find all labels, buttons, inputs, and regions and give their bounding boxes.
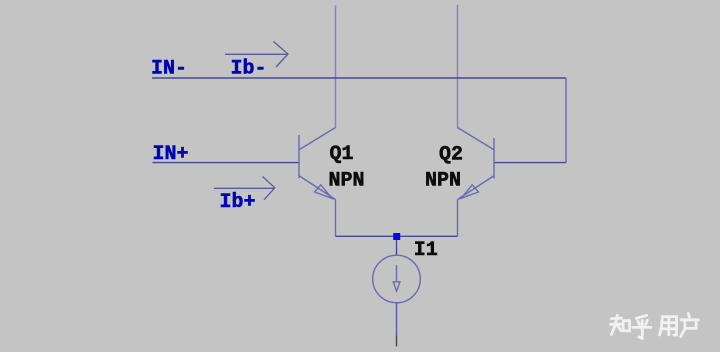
wire junction to current source [396,240,398,256]
glyph hu [636,315,646,318]
wire below current source [396,303,398,336]
current arrow Ib- [225,42,288,68]
wire IN+ horizontal [153,162,300,164]
watermark zhihu user (drawn glyphs) [611,313,699,338]
svg-text:Ib-: Ib- [231,58,267,81]
current arrow Ib+ [214,177,275,200]
wire right vertical from IN- down [565,78,567,163]
svg-text:NPN: NPN [425,169,461,192]
wire top vertical to Q1 collector [335,6,337,128]
svg-text:Q1: Q1 [330,143,354,166]
wire top vertical to Q2 collector [457,5,459,128]
svg-text:IN+: IN+ [153,143,189,166]
transistor Q1 [299,128,336,237]
wire Q2 base horizontal [494,162,567,164]
current source I1 [373,255,421,303]
wire IN- horizontal [152,77,566,79]
svg-text:Ib+: Ib+ [220,191,256,214]
glyph hu2 [688,313,689,316]
glyph zhi [611,317,621,320]
svg-text:Q2: Q2 [439,144,463,167]
glyph yong [660,317,663,335]
svg-text:NPN: NPN [329,169,365,192]
node junction square [393,233,400,240]
svg-text:IN-: IN- [151,57,187,80]
svg-text:I1: I1 [414,239,438,262]
wire emitters bottom horizontal [336,235,458,237]
pin stub dark below [396,336,398,347]
transistor Q2 [458,128,495,237]
